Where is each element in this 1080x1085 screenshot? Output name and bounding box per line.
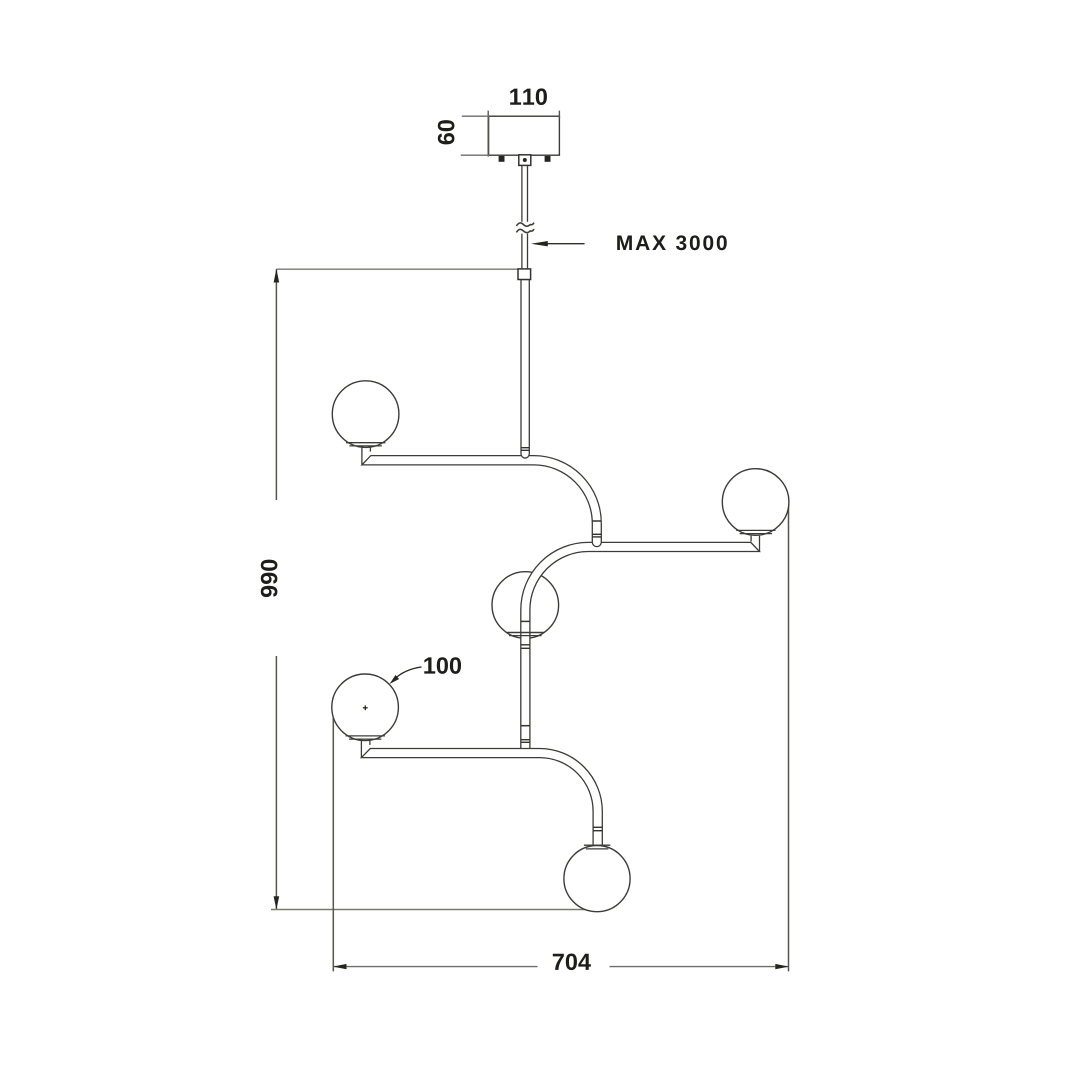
dimension 990 bottom extension line (271, 909, 600, 911)
globe G2 right sphere (722, 469, 789, 536)
dimension 704 left extension line (332, 711, 334, 972)
label 100 leader with arrow (390, 667, 422, 684)
globe G4 lower-left sphere (332, 674, 399, 741)
label MAX 3000 (617, 235, 727, 250)
globe G3 bottom fitting lines (507, 633, 544, 636)
canopy mounting tabs (499, 156, 551, 162)
MAX 3000 leader arrow (531, 241, 585, 246)
arm A2 with center drop rod (521, 542, 760, 752)
dimension label 704 (553, 953, 591, 970)
dimension label 60 (438, 120, 455, 144)
suspension rod upper connector (518, 269, 531, 280)
suspension cable (522, 165, 528, 269)
arm A3 neck collar ticks (593, 827, 602, 830)
globe G2 neck fitting (751, 536, 759, 551)
globe G1 top-left sphere (332, 381, 399, 448)
dimension label 990 (261, 560, 278, 597)
arm A1 top arm (362, 456, 601, 547)
globe G5 bottom sphere (564, 845, 630, 912)
globe G3 center sphere (492, 572, 559, 639)
arm A3 bottom arm (361, 749, 602, 846)
center rod collar ticks (521, 621, 530, 742)
cable break symbol (516, 223, 534, 233)
arm A1 drop collar ticks (592, 521, 601, 537)
dimension 990 line with arrows (274, 269, 280, 910)
ceiling canopy box (489, 116, 560, 155)
label 100 (424, 657, 461, 674)
globe G4 neck fitting (361, 739, 370, 757)
main stem lower section (521, 280, 529, 459)
globe G4 center mark (363, 705, 368, 710)
dimension 704 line with arrows (333, 964, 789, 969)
dimension label 110 (510, 88, 547, 105)
dimension 704 right extension line (788, 506, 790, 972)
dimension 60 extension lines (461, 116, 489, 155)
dimension 990 top extension line (276, 268, 520, 270)
canopy stem connector (519, 155, 531, 166)
globe G1 neck fitting (362, 446, 371, 465)
dimension 110 extension ticks (488, 111, 559, 157)
